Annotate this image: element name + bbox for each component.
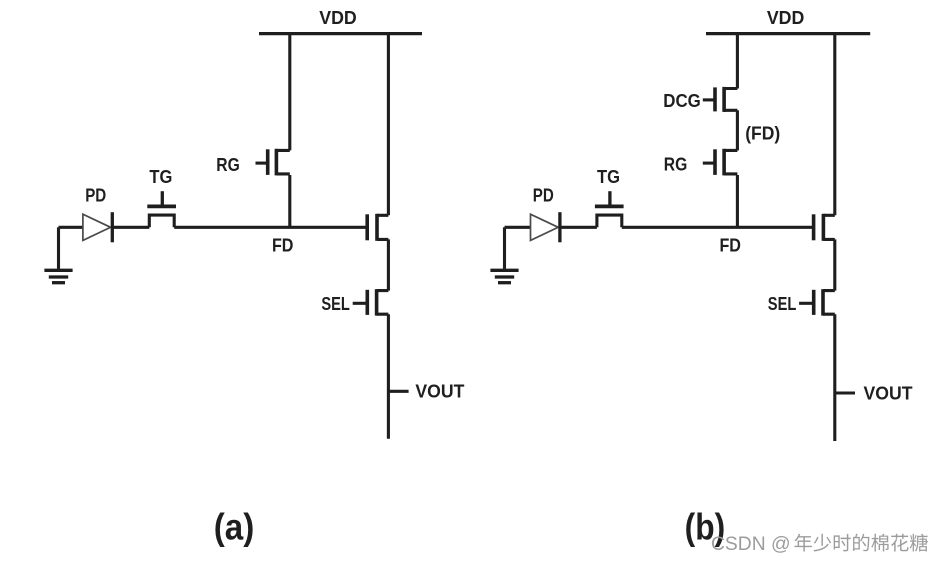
wire VDD rail to SF drain and SEL to VOUT (a) — [387, 34, 390, 439]
wire ground to photodiode anode (b) — [505, 226, 531, 229]
transistor TG (b) — [595, 191, 624, 227]
power rail VDD (b) — [706, 32, 870, 35]
svg-text:CSDN @: CSDN @ — [711, 534, 791, 555]
svg-text:PD: PD — [85, 186, 106, 206]
transistor DCG (b) — [703, 87, 738, 112]
transistor SF source follower (a) — [367, 214, 388, 241]
svg-text:VOUT: VOUT — [415, 382, 464, 402]
svg-text:SEL: SEL — [321, 294, 350, 314]
wire VOUT stub (b) — [835, 391, 855, 394]
ground (b) — [490, 227, 518, 282]
transistor SF source follower (b) — [814, 214, 835, 241]
svg-text:DCG: DCG — [663, 91, 701, 111]
svg-text:FD: FD — [272, 236, 294, 256]
wire DCG source to RG drain, node (FD) (b) — [736, 110, 739, 150]
svg-text:(a): (a) — [214, 505, 255, 547]
svg-text:FD: FD — [719, 236, 741, 256]
svg-text:PD: PD — [533, 186, 554, 206]
svg-text:SEL: SEL — [768, 294, 797, 314]
wire RG source to FD node (b) — [736, 175, 739, 227]
svg-text:RG: RG — [664, 155, 688, 175]
power rail VDD (a) — [259, 32, 422, 35]
transistor TG (a) — [147, 191, 176, 227]
svg-text:VDD: VDD — [767, 8, 805, 28]
wire RG source to FD node (a) — [288, 175, 291, 227]
transistor RG (a) — [256, 149, 290, 176]
wire ground to photodiode anode (a) — [59, 226, 83, 229]
transistor RG (b) — [703, 149, 738, 176]
svg-text:TG: TG — [597, 167, 620, 187]
wire VDD rail to SF drain and SEL to VOUT (b) — [833, 34, 836, 441]
watermark CSDN — [711, 534, 928, 555]
photodiode PD (a) — [83, 212, 112, 242]
transistor SEL (b) — [799, 289, 835, 315]
svg-text:(FD): (FD) — [745, 124, 780, 144]
wire node FD to SF gate (b) — [622, 226, 814, 229]
wire photodiode cathode to TG (a) — [112, 226, 149, 229]
transistor SEL (a) — [353, 289, 389, 315]
wire VDD rail to RG drain (a) — [288, 34, 291, 151]
ground (a) — [44, 227, 72, 282]
svg-text:RG: RG — [216, 155, 240, 175]
wire node FD to SF gate (a) — [174, 226, 367, 229]
svg-text:VOUT: VOUT — [864, 384, 913, 404]
wire VOUT stub (a) — [388, 390, 408, 393]
wire VDD rail to DCG drain (b) — [736, 34, 739, 89]
wire photodiode cathode to TG (b) — [560, 226, 597, 229]
photodiode PD (b) — [531, 212, 560, 242]
svg-text:VDD: VDD — [319, 8, 357, 28]
svg-text:TG: TG — [149, 167, 172, 187]
